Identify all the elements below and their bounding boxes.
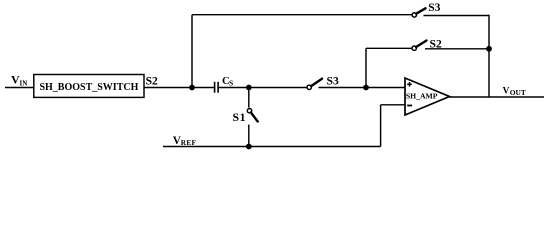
svg-text:S3: S3	[428, 1, 440, 14]
svg-text:S3: S3	[327, 75, 339, 88]
svg-text:SH_BOOST_SWITCH: SH_BOOST_SWITCH	[39, 82, 138, 93]
svg-text:S1: S1	[233, 110, 247, 124]
svg-text:IN: IN	[20, 79, 28, 87]
svg-text:S: S	[229, 79, 233, 88]
svg-text:REF: REF	[181, 138, 197, 147]
svg-text:S2: S2	[146, 74, 158, 87]
svg-text:S2: S2	[430, 38, 442, 51]
svg-text:OUT: OUT	[510, 88, 526, 97]
svg-text:V: V	[503, 86, 510, 96]
svg-text:SH_AMP: SH_AMP	[406, 92, 438, 101]
